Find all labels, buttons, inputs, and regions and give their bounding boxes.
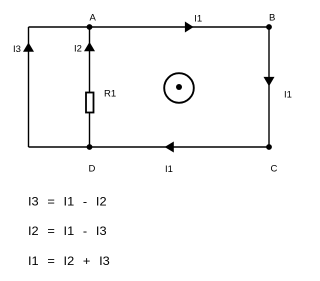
svg-text:I1 = I2 + I3: I1 = I2 + I3	[28, 254, 110, 268]
svg-text:I3: I3	[13, 44, 21, 55]
svg-text:I3 = I1 - I2: I3 = I1 - I2	[28, 195, 107, 209]
svg-text:R1: R1	[104, 89, 116, 100]
current arrow I1 bottom (leftward)	[165, 142, 174, 153]
node A junction dot	[87, 24, 93, 30]
current arrow I2 (upward, middle branch)	[84, 42, 95, 51]
wire left (D-A branch)	[28, 27, 30, 147]
svg-text:I1: I1	[284, 90, 292, 101]
svg-text:I2: I2	[74, 44, 82, 55]
wire top (A-B segment of loop)	[29, 26, 270, 28]
wire right (B-C)	[268, 27, 270, 147]
svg-text:I1: I1	[165, 164, 173, 175]
field symbol center dot	[176, 84, 182, 90]
svg-text:I2 = I1 - I3: I2 = I1 - I3	[28, 224, 107, 238]
wire bottom (C-D)	[29, 146, 270, 148]
svg-text:I1: I1	[194, 14, 202, 25]
node D junction dot	[87, 144, 93, 150]
node C junction dot	[266, 144, 272, 150]
current arrow I1 right (downward)	[264, 77, 275, 86]
current arrow I3 (upward, left branch)	[23, 43, 34, 52]
wire middle branch A-D	[89, 27, 91, 147]
svg-text:B: B	[269, 13, 275, 24]
svg-text:C: C	[271, 164, 278, 175]
current arrow I1 top (rightward)	[185, 22, 194, 33]
resistor R1	[86, 93, 94, 113]
field symbol: circle with center dot (B-field out of page)	[164, 73, 194, 103]
node B junction dot	[266, 24, 272, 30]
svg-text:D: D	[89, 164, 96, 175]
svg-text:A: A	[90, 13, 97, 24]
